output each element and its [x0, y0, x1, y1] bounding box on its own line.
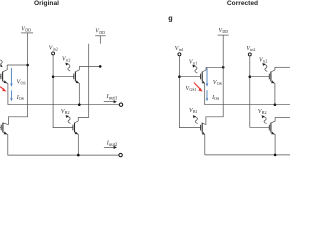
- transistor Q4: [73, 117, 78, 155]
- supply VDD right bar: [218, 34, 229, 36]
- label VOS: [17, 80, 26, 86]
- annotation squiggle arrow to Q5 gate: [194, 66, 197, 73]
- supply VDD2 bar (disconnected stub): [95, 35, 105, 37]
- node C dot floating end: [99, 65, 102, 68]
- supply VDD right label: [219, 28, 229, 34]
- svg-text:in2: in2: [250, 47, 255, 52]
- annotation squiggle arrow to Q7 gate: [195, 117, 198, 124]
- blue arrow VOS: [10, 68, 12, 84]
- label IOS right: [211, 95, 219, 101]
- svg-text:Original: Original: [34, 0, 59, 7]
- wire VDD right rail (continuous): [206, 35, 223, 125]
- svg-text:DD: DD: [99, 30, 105, 35]
- annotation squiggle arrow to Q4 gate: [68, 117, 71, 124]
- wire Q5 drain to VDD rail: [206, 66, 223, 68]
- wire VDD2 stub: [99, 36, 101, 44]
- arrow Iout1: [104, 101, 115, 103]
- svg-text:GS1: GS1: [189, 87, 196, 92]
- terminal Vin2 right circle: [248, 53, 251, 56]
- svg-text:in1: in1: [179, 47, 184, 52]
- wire sources row1 right to edge: [205, 104, 290, 106]
- supply VDD2 label: [95, 29, 105, 35]
- wire Q4 drain long floating vertical: [78, 44, 89, 118]
- transistor Q8: [269, 117, 275, 154]
- wire sources row2 right to edge: [205, 154, 290, 156]
- terminal Vin1 label: [175, 46, 184, 52]
- node J dot sources row2 right: [274, 154, 277, 157]
- wire source row1 to Iout1 terminal: [8, 104, 119, 106]
- red arrow at Q1 source: [0, 87, 5, 90]
- svg-text:DD: DD: [222, 29, 228, 34]
- annotation squiggle arrow to Q2 gate: [67, 64, 70, 71]
- transistor Q1 (cut at left edge): [0, 65, 8, 105]
- label IOS: [16, 95, 24, 101]
- node I dot Vin2 right to Q6 gate: [249, 75, 252, 78]
- wire Q2 drain stub ending at dot: [79, 65, 100, 67]
- wire Vin2 to Q2 gate: [53, 76, 74, 78]
- terminal Vin2 circle: [52, 52, 55, 55]
- blue arrow VOS right: [206, 68, 208, 84]
- supply VDD1 bar: [21, 32, 33, 34]
- svg-text:tr2: tr2: [263, 58, 267, 63]
- svg-text:B2: B2: [65, 110, 70, 115]
- svg-text:OS: OS: [217, 81, 222, 86]
- label Iout2: [106, 140, 118, 148]
- node G dot on VDD rail: [222, 66, 225, 69]
- label Vtr1: [189, 59, 197, 65]
- svg-text:tr1: tr1: [193, 60, 197, 65]
- node F dot Vin1 to Q5 gate: [178, 75, 181, 78]
- blue arrow IOS right: [206, 90, 208, 98]
- wire Vin1 rail: [179, 56, 200, 128]
- svg-text:out1: out1: [109, 96, 118, 101]
- wire Q6 drain to right edge: [275, 66, 290, 68]
- label VB2 right: [258, 109, 267, 115]
- wire Q8 drain to right edge (corrected routing): [275, 116, 290, 118]
- red arrow at Q5 source: [194, 83, 201, 90]
- annotation squiggle arrow at Q1 gate (label cut off): [0, 60, 2, 66]
- annotation squiggle arrow to Q8 gate: [264, 117, 267, 124]
- label Vtr2 right: [259, 57, 267, 63]
- wire Vin1 to Q5 gate: [179, 76, 200, 78]
- svg-text:B2: B2: [262, 110, 267, 115]
- arrow Iout2: [104, 146, 115, 148]
- terminal Vin2 right label: [246, 46, 255, 52]
- svg-text:OS: OS: [21, 81, 26, 86]
- terminal Iout2: [119, 153, 122, 156]
- svg-text:OS: OS: [214, 96, 219, 101]
- annotation squiggle arrow to Q6 gate: [264, 65, 267, 72]
- label VB2 left: [61, 109, 70, 115]
- transistor Q3 (cut at left edge): [0, 123, 8, 155]
- svg-text:DD: DD: [25, 28, 31, 33]
- terminal Vin2 label: [49, 45, 58, 51]
- svg-text:tr2: tr2: [66, 57, 70, 62]
- node A dot T1 drain to rail: [26, 64, 29, 67]
- transistor Q7: [201, 123, 206, 155]
- transistor Q5: [201, 67, 206, 104]
- svg-text:OS: OS: [19, 96, 24, 101]
- wire sources row2 to Iout2 terminal: [8, 154, 119, 156]
- wire T1 drain to node A: [7, 64, 27, 66]
- svg-text:Corrected: Corrected: [227, 0, 258, 7]
- terminal Iout1: [119, 103, 122, 106]
- label Iout1: [106, 94, 118, 102]
- terminal Vin1 circle: [178, 53, 181, 56]
- label VOS right: [213, 80, 222, 86]
- wire Vin2 rail: [53, 55, 73, 128]
- svg-text:in2: in2: [53, 46, 58, 51]
- svg-text:g: g: [168, 13, 172, 22]
- blue arrow IOS: [10, 90, 12, 98]
- node B dot Vin2 to Q2 gate: [52, 75, 55, 78]
- node E dot sources row2: [77, 154, 80, 157]
- label VGS1: [186, 86, 197, 92]
- svg-text:B1: B1: [193, 109, 198, 114]
- node H dot sources row1 right: [274, 103, 277, 106]
- wire Vin2 right rail: [250, 56, 269, 128]
- wire Vin2 right to Q6 gate: [250, 76, 269, 78]
- transistor Q6: [269, 67, 275, 104]
- transistor Q2: [74, 66, 80, 104]
- label Vtr2 left: [62, 56, 70, 62]
- label VB1: [189, 108, 198, 114]
- supply VDD1 label: [21, 26, 31, 32]
- node D dot sources row1: [78, 103, 81, 106]
- wire VDD1 rail: [8, 33, 27, 125]
